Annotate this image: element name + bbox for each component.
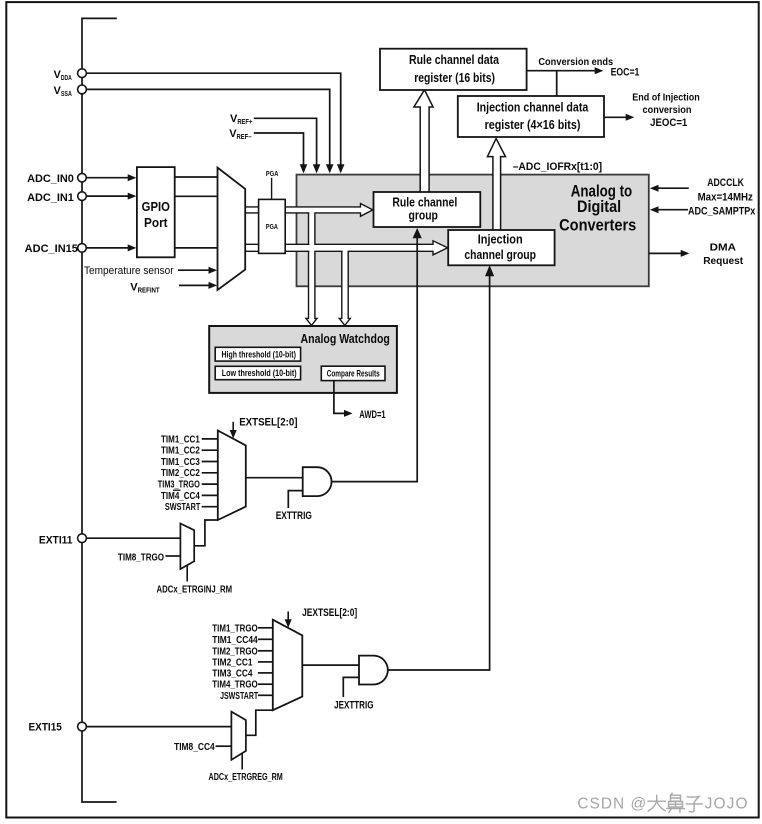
svg-text:Low threshold (10-bit): Low threshold (10-bit)	[222, 368, 297, 378]
wire TIM1_CC44	[258, 638, 273, 640]
svg-text:Conversion ends: Conversion ends	[538, 56, 613, 68]
wire temperature sensor	[178, 269, 209, 271]
arrowhead ADC_SAMPTPx	[650, 206, 659, 213]
wire VSSA	[87, 89, 330, 164]
svg-text:VSSA: VSSA	[54, 85, 73, 98]
arrowhead VREF- down	[300, 164, 308, 173]
svg-text:Rule channel data: Rule channel data	[409, 52, 500, 67]
wire ETRGINJ select	[186, 565, 188, 581]
svg-text:ADC_IN0: ADC_IN0	[27, 173, 74, 185]
arrowhead temperature sensor	[209, 267, 218, 274]
injection channel data register box	[458, 96, 604, 137]
svg-text:TIM3_TRGO: TIM3_TRGO	[158, 480, 200, 491]
node ADC_IN1 pin	[78, 192, 87, 201]
GPIO port box	[137, 167, 175, 257]
wire ADCCLK	[658, 187, 689, 189]
wire JEXTTRIG label input	[343, 677, 359, 697]
svg-text:Analog Watchdog: Analog Watchdog	[301, 331, 390, 346]
svg-text:TIM1_CC1: TIM1_CC1	[161, 434, 200, 445]
wire ADC_IN15	[86, 247, 128, 249]
arrowhead ADC_IN15	[128, 244, 137, 251]
svg-text:EXTI11: EXTI11	[39, 535, 73, 547]
wire GPIO to mux row2	[175, 195, 218, 197]
arrowhead ADCCLK	[650, 185, 659, 192]
wire VREF-	[254, 133, 304, 165]
high threshold box	[215, 347, 300, 361]
svg-text:VREF–: VREF–	[229, 128, 251, 141]
svg-text:TIM1_TRGO: TIM1_TRGO	[212, 623, 258, 634]
pipe junction vpipe1 x pipeB	[309, 243, 314, 252]
wire EXTTRIG label input	[288, 491, 302, 508]
svg-text:ADCx_ETRGINJ_RM: ADCx_ETRGINJ_RM	[157, 585, 233, 596]
svg-text:TIM8_TRGO: TIM8_TRGO	[118, 552, 164, 563]
wire EXTTRIG to rule group	[332, 238, 418, 482]
mux EXTSEL	[218, 431, 246, 521]
label GPIO Port	[142, 199, 170, 230]
svg-text:TIM2_TRGO: TIM2_TRGO	[212, 646, 258, 657]
wire VREFINT	[179, 284, 209, 286]
wire TIM1_CC2	[202, 449, 218, 451]
wire TIM3_TRGO	[202, 483, 218, 485]
svg-text:Injection: Injection	[478, 232, 523, 247]
wire GPIO to mux row3	[175, 247, 218, 249]
wire JEXTSEL select	[287, 612, 289, 620]
wire TIM8_CC4	[216, 745, 232, 747]
rule channel group box	[374, 192, 481, 227]
arrowhead JEXTSEL select	[285, 619, 292, 628]
wire TIM1_CC1	[202, 438, 218, 440]
wire EXTSEL mux to AND gate	[246, 477, 303, 479]
ADC block	[297, 175, 649, 287]
gate AND EXTTRIG	[303, 467, 332, 496]
label Analog to Digital Converters	[559, 183, 636, 235]
overline TIM4	[173, 489, 181, 491]
hollow arrow rule-group to rule-register	[414, 90, 433, 193]
arrowhead AWD	[344, 410, 353, 417]
svg-text:High threshold (10-bit): High threshold (10-bit)	[222, 350, 296, 360]
wire JEXTTRIG to injection group	[388, 276, 490, 671]
wire TIM8_TRGO	[166, 555, 181, 557]
hollow pipe mux to injection channel group	[245, 241, 447, 255]
svg-text:TIM4_TRGO: TIM4_TRGO	[212, 680, 258, 691]
wire GPIO to mux row1	[175, 176, 218, 178]
svg-text:Request: Request	[703, 255, 743, 267]
svg-text:group: group	[409, 208, 438, 223]
wire TIM3_CC4	[258, 672, 273, 674]
mux ETRGREG remap	[231, 712, 246, 760]
svg-text:TIM1_CC44: TIM1_CC44	[212, 635, 258, 646]
svg-text:GPIO: GPIO	[142, 199, 170, 214]
wire TIM1_CC3	[202, 461, 218, 463]
svg-text:TIM1_CC3: TIM1_CC3	[161, 457, 200, 468]
mux ETRGINJ remap	[180, 524, 194, 570]
label end of injection conversion	[632, 92, 700, 130]
svg-text:VREFINT: VREFINT	[130, 282, 160, 295]
svg-text:TIM4_CC4: TIM4_CC4	[161, 491, 200, 502]
svg-text:channel group: channel group	[464, 247, 536, 262]
wire JEXTSEL mux to AND gate	[302, 664, 359, 666]
wire AWD out	[334, 381, 344, 414]
label rule channel group	[392, 194, 457, 222]
watermark CSDN	[577, 793, 747, 812]
svg-text:CSDN @: CSDN @	[577, 795, 646, 812]
svg-text:ADCx_ETRGREG_RM: ADCx_ETRGREG_RM	[209, 772, 283, 783]
compare results box	[321, 366, 385, 380]
wire TIM4_TRGO	[258, 683, 273, 685]
svg-text:TIM2_CC1: TIM2_CC1	[212, 657, 253, 668]
wire TIM4_CC4	[202, 494, 218, 496]
svg-text:EOC=1: EOC=1	[611, 67, 640, 79]
wire EXTSEL select	[232, 422, 234, 431]
wire SWSTART	[202, 506, 218, 508]
injection channel group box	[448, 230, 554, 265]
bus wire left	[82, 18, 117, 802]
mux JEXTSEL	[273, 620, 303, 711]
svg-text:SWSTART: SWSTART	[165, 502, 200, 513]
arrowhead JEOC	[626, 114, 635, 121]
wire EOC	[527, 71, 595, 97]
wire TIM2_CC1	[258, 661, 273, 663]
svg-text:JOJO: JOJO	[705, 795, 748, 812]
svg-text:ADC_SAMPTPx: ADC_SAMPTPx	[688, 205, 756, 217]
node VSSA pin	[78, 85, 87, 94]
node EXTI11 pin	[78, 534, 87, 543]
svg-text:PGA: PGA	[266, 224, 278, 231]
label injection channel group	[464, 232, 536, 262]
wire ADC_IN0	[86, 177, 128, 179]
wire VREF+	[254, 118, 317, 165]
svg-text:EXTI15: EXTI15	[29, 721, 62, 733]
rule channel data register box	[380, 49, 527, 90]
svg-text:conversion: conversion	[643, 104, 692, 116]
pipe junction vpipe2 x pipeB	[343, 250, 348, 252]
svg-text:AWD=1: AWD=1	[359, 409, 385, 421]
label DMA Request	[703, 242, 743, 268]
input mux	[218, 168, 246, 290]
wire EXTI15 to submux	[86, 726, 231, 728]
svg-text:ADCCLK: ADCCLK	[707, 177, 744, 189]
wire PGA select	[271, 178, 273, 200]
svg-text:End of Injection: End of Injection	[632, 92, 700, 104]
analog watchdog box	[209, 326, 397, 393]
pipe junction vpipe1 x pipeA	[309, 212, 314, 214]
svg-text:Converters: Converters	[559, 217, 636, 235]
arrowhead ADC_IN0	[128, 174, 137, 181]
wire JSWSTART	[258, 694, 273, 696]
svg-text:–ADC_IOFRx[t1:0]: –ADC_IOFRx[t1:0]	[513, 161, 603, 173]
hollow pipe to watchdog (from rule pipe)	[306, 208, 317, 325]
gate AND JEXTTRIG	[359, 656, 388, 685]
svg-text:VREF+: VREF+	[230, 113, 252, 126]
svg-text:TIM2_CC2: TIM2_CC2	[161, 468, 200, 479]
PGA U1	[259, 199, 286, 253]
node VDDA pin	[78, 69, 87, 78]
svg-text:JEXTTRIG: JEXTTRIG	[334, 700, 373, 712]
wire TIM2_CC2	[202, 472, 218, 474]
svg-text:Compare Results: Compare Results	[327, 368, 380, 378]
wire submux out to JEXTSEL mux	[246, 710, 273, 735]
arrowhead VREF+ down	[313, 164, 321, 173]
node ADC_IN0 pin	[78, 173, 87, 182]
arrowhead EOC	[595, 67, 604, 74]
wire TIM1_TRGO	[258, 627, 273, 629]
low threshold box	[215, 366, 300, 379]
arrowhead EXTTRIG up	[413, 228, 422, 238]
svg-text:ADC_IN1: ADC_IN1	[27, 192, 74, 204]
arrowhead VDDA down	[337, 164, 345, 173]
svg-text:register (16 bits): register (16 bits)	[414, 70, 495, 85]
svg-text:Max=14MHz: Max=14MHz	[698, 191, 754, 203]
arrowhead JEXTTRIG up	[485, 265, 494, 276]
svg-text:TIM3_CC4: TIM3_CC4	[212, 668, 253, 679]
svg-text:EXTSEL[2:0]: EXTSEL[2:0]	[239, 416, 298, 428]
svg-text:Temperature sensor: Temperature sensor	[84, 265, 174, 277]
svg-text:Port: Port	[144, 215, 168, 230]
arrowhead EXTSEL select	[230, 430, 237, 439]
wire ADC_IN1	[86, 195, 128, 197]
wire TIM2_TRGO	[258, 650, 273, 652]
svg-text:JSWSTART: JSWSTART	[220, 691, 258, 702]
wire submux out to EXTSEL mux	[194, 520, 218, 546]
svg-text:TIM1_CC2: TIM1_CC2	[161, 446, 200, 457]
svg-text:JEOC=1: JEOC=1	[650, 117, 687, 129]
svg-text:PGA: PGA	[266, 171, 279, 178]
svg-text:Digital: Digital	[577, 198, 621, 216]
wire VDDA	[87, 73, 341, 165]
wire ETRGREG select	[241, 753, 243, 769]
svg-text:Injection channel data: Injection channel data	[477, 99, 589, 114]
hollow pipe mux to rule channel group	[245, 204, 373, 217]
svg-text:JEXTSEL[2:0]: JEXTSEL[2:0]	[302, 607, 357, 619]
node EXTI15 pin	[78, 722, 87, 731]
node ADC_IN15 pin	[78, 244, 87, 253]
svg-text:ADC_IN15: ADC_IN15	[25, 243, 78, 255]
wire JEOC	[605, 116, 627, 118]
wire DMA request	[649, 252, 681, 254]
arrowhead VREFINT	[209, 282, 218, 289]
arrowhead VSSA down	[326, 164, 334, 173]
svg-text:DMA: DMA	[710, 242, 737, 254]
arrowhead DMA request	[681, 250, 690, 257]
svg-text:TIM8_CC4: TIM8_CC4	[174, 742, 215, 753]
label rule channel data register	[409, 52, 500, 85]
label injection channel data register	[477, 99, 589, 131]
hollow arrow injection-group to injection-register	[487, 139, 505, 232]
wire EXTI11 to submux	[86, 537, 180, 539]
svg-text:VDDA: VDDA	[54, 69, 73, 82]
svg-text:register (4×16 bits): register (4×16 bits)	[485, 117, 581, 132]
arrowhead ADC_IN1	[128, 193, 137, 200]
wire ADC_SAMPTPx	[658, 209, 688, 211]
hollow pipe to watchdog (from injection pipe)	[339, 245, 350, 325]
svg-text:EXTTRIG: EXTTRIG	[276, 510, 312, 522]
